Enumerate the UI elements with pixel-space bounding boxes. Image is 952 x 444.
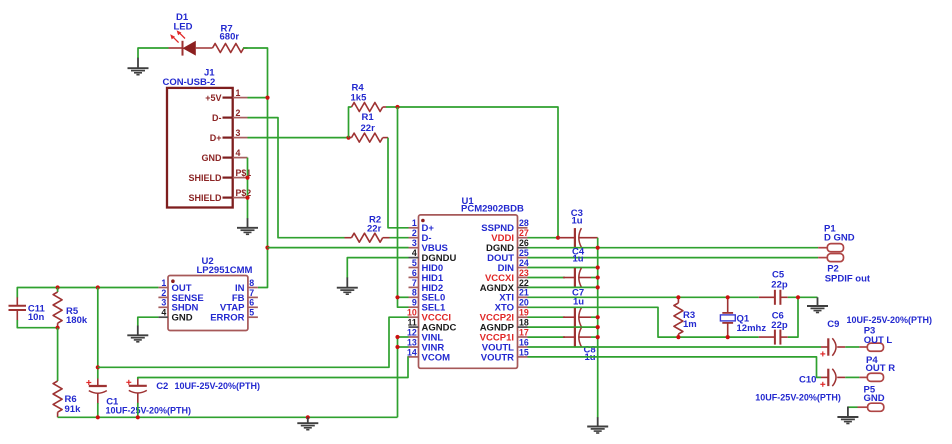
wire R1 right to U1 pin1 D+ <box>388 138 409 228</box>
wire <box>138 48 169 58</box>
resistor R6 91k <box>53 381 62 417</box>
wire bottom rail <box>58 416 398 418</box>
wire +5V net: R7 to J1 pin1 to U2 IN vertical <box>243 48 268 288</box>
svg-text:2: 2 <box>412 228 417 238</box>
resistor R7 <box>213 44 248 53</box>
LED D1 <box>169 30 213 55</box>
wire J1 GND pin4 down to ground <box>247 158 249 219</box>
svg-text:SPDIF out: SPDIF out <box>825 274 871 285</box>
wire SEL0 stub link <box>398 296 409 298</box>
svg-text:22p: 22p <box>771 320 788 331</box>
pad P5 GND <box>858 403 884 411</box>
svg-text:4: 4 <box>236 148 241 158</box>
U1 pin 9 SEL1 <box>409 298 446 314</box>
junction C2 bottom <box>136 415 140 419</box>
U1 pin 20 XTO <box>495 298 529 314</box>
svg-text:C2: C2 <box>156 381 168 392</box>
wire ground bus vertical <box>597 238 599 418</box>
svg-text:1: 1 <box>161 278 166 288</box>
C8 right lead <box>580 336 598 338</box>
ground below P5 <box>837 407 858 424</box>
voltage regulator U2 LP2951CMM <box>168 276 248 331</box>
capacitor C4 1u <box>563 277 575 279</box>
resistor R3 1m <box>674 297 683 337</box>
junction bottom rail ground <box>306 415 310 419</box>
svg-text:OUT L: OUT L <box>864 335 893 346</box>
capacitor C9 10UF <box>820 338 845 356</box>
U1 pin 14 VCOM <box>407 347 450 363</box>
junction AGNDP bus <box>596 325 600 329</box>
U1 pin 16 VOUTL <box>482 337 529 353</box>
J1 pin 4 GND <box>202 148 248 163</box>
crystal Q1 12mhz <box>720 297 735 337</box>
svg-text:21: 21 <box>519 288 529 298</box>
junction +5V / VBUS branch <box>265 246 269 250</box>
svg-text:D-: D- <box>212 113 222 123</box>
svg-text:9: 9 <box>412 298 417 308</box>
pad P1 D GND <box>818 244 843 252</box>
svg-text:23: 23 <box>519 268 529 278</box>
U2 pin 2 SENSE <box>158 288 203 304</box>
wire DGND to P1 pad <box>528 247 819 249</box>
svg-text:7: 7 <box>249 288 254 298</box>
svg-text:OUT R: OUT R <box>866 363 896 374</box>
U1 pin 11 AGNDC <box>407 318 456 334</box>
U1 pin 25 DOUT <box>487 248 529 264</box>
wire VCCP2I to C7 <box>528 316 566 318</box>
svg-text:GND: GND <box>202 153 223 163</box>
U2 pin 8 IN <box>235 278 258 294</box>
svg-text:SHIELD: SHIELD <box>188 193 222 203</box>
svg-text:1k5: 1k5 <box>351 93 368 104</box>
wire U2 OUT rail <box>17 288 158 298</box>
U1 pin 5 HID0 <box>409 258 444 274</box>
svg-text:1m: 1m <box>683 319 697 330</box>
svg-text:17: 17 <box>519 327 529 337</box>
wire VCCP1I to C8 <box>528 336 566 338</box>
svg-text:15: 15 <box>519 347 529 357</box>
wire P5 to ground <box>848 406 858 408</box>
capacitor C2 10UF <box>126 378 147 404</box>
svg-text:R1: R1 <box>362 112 375 123</box>
svg-text:27: 27 <box>519 228 529 238</box>
svg-text:12: 12 <box>407 327 417 337</box>
svg-text:LED: LED <box>174 21 193 32</box>
wire C1 branch vertical <box>97 288 99 379</box>
svg-text:8: 8 <box>412 288 417 298</box>
svg-text:22r: 22r <box>367 224 382 235</box>
ground <box>128 57 149 74</box>
pad P2 SPDIF out <box>818 254 843 262</box>
svg-text:ERROR: ERROR <box>210 313 244 324</box>
wire XTI net <box>528 296 759 298</box>
wire DOUT to P2 pad <box>528 257 819 259</box>
pad P4 OUT R <box>859 373 883 381</box>
U1 pin 18 AGNDP <box>480 318 529 334</box>
capacitor C10 10UF <box>820 369 845 387</box>
C4 right lead <box>580 277 598 279</box>
C3 right lead <box>580 237 598 239</box>
junction VINL <box>395 335 399 339</box>
U1 pin 4 DGNDU <box>409 248 457 264</box>
U1 pin 23 VCCXI <box>485 268 529 284</box>
svg-text:5: 5 <box>412 258 417 268</box>
junction C1 branch top <box>96 285 100 289</box>
capacitor C7 1u <box>563 316 575 318</box>
junction +5V at J1 pin1 <box>265 96 269 100</box>
wire AGNDP to bus <box>528 326 598 328</box>
U2 pin 4 GND <box>158 308 192 324</box>
wire SEL vertical to SEL0/SEL1 <box>398 107 409 307</box>
U1 pin 24 DIN <box>498 258 529 274</box>
junction R3 top <box>676 295 680 299</box>
U1 pin 21 XTI <box>499 288 529 304</box>
svg-text:91k: 91k <box>65 404 82 415</box>
wire VOUTL to C9 <box>528 346 822 348</box>
wire C2 bottom <box>137 403 139 418</box>
wire VCCXI to C4 <box>528 277 566 279</box>
wire DGNDU to ground <box>347 258 408 278</box>
wire VINL/VINR vertical <box>397 337 399 417</box>
svg-text:VOUTR: VOUTR <box>481 352 514 363</box>
svg-text:22: 22 <box>519 278 529 288</box>
U1 pin 28 SSPND <box>481 218 529 234</box>
svg-text:680r: 680r <box>220 31 240 42</box>
wire C10 to P4 <box>845 376 859 378</box>
svg-text:VCOM: VCOM <box>422 352 451 363</box>
svg-text:11: 11 <box>407 318 416 328</box>
svg-text:6: 6 <box>249 298 254 308</box>
wire R2 right to U1 pin2 D- <box>390 237 409 239</box>
wire C9 to P3 <box>845 346 859 348</box>
wire D- from J1 pin2 to R2 <box>248 118 345 238</box>
svg-text:20: 20 <box>519 298 529 308</box>
wire VINL stub link <box>398 336 409 338</box>
J1 pin 3 D+ <box>210 128 248 143</box>
svg-text:18: 18 <box>519 318 529 328</box>
wire C11 bottom to R5 bottom <box>17 320 57 328</box>
svg-text:PCM2902BDB: PCM2902BDB <box>461 203 524 214</box>
capacitor C8 1u <box>563 336 575 338</box>
svg-text:26: 26 <box>519 238 529 248</box>
pad P3 OUT L <box>859 343 883 351</box>
svg-text:13: 13 <box>407 337 417 347</box>
junction VCCCI tap <box>96 365 100 369</box>
junction R3 bottom <box>676 335 680 339</box>
junction DIN bus <box>596 265 600 269</box>
U1 pin 27 VDDI <box>491 228 529 244</box>
ground right of C5 <box>807 297 828 312</box>
U2 pin 3 SHDN <box>158 298 198 314</box>
resistor R1 22r <box>349 133 389 142</box>
junction SHIELD P$2 <box>245 196 249 200</box>
wire R4 right to VDDI <box>386 107 558 238</box>
wire DIN to bus <box>528 267 598 269</box>
svg-text:10n: 10n <box>28 312 45 323</box>
resistor R2 22r <box>345 233 390 242</box>
junction C7 bus <box>596 315 600 319</box>
capacitor C6 22p <box>759 330 788 345</box>
ground below U2 <box>127 326 148 342</box>
junction VDDI <box>556 236 560 240</box>
wire R5 bottom to R6 top <box>57 328 59 381</box>
wire VINR stub link <box>398 346 409 348</box>
svg-text:19: 19 <box>519 308 529 318</box>
capacitor C3 1u <box>558 237 575 239</box>
wire AGNDX to bus <box>528 286 598 288</box>
svg-text:5: 5 <box>249 308 254 318</box>
svg-text:LP2951CMM: LP2951CMM <box>197 265 253 276</box>
svg-text:2: 2 <box>161 288 166 298</box>
wire VCCCI long rail to U1 pin10 <box>98 317 409 367</box>
svg-text:1: 1 <box>236 88 241 98</box>
U2 pin 1 OUT <box>158 278 191 294</box>
svg-text:D GND: D GND <box>824 232 855 243</box>
capacitor C11 10n <box>9 297 27 320</box>
junction C1 bottom <box>96 415 100 419</box>
J1 pin 2 D- <box>212 108 248 123</box>
svg-text:4: 4 <box>161 308 166 318</box>
svg-text:28: 28 <box>519 218 529 228</box>
junction Q1 bottom <box>726 335 730 339</box>
svg-text:7: 7 <box>412 278 417 288</box>
svg-text:GND: GND <box>864 393 885 404</box>
junction Q1 top <box>726 295 730 299</box>
svg-text:2: 2 <box>236 108 241 118</box>
C7 right lead <box>580 316 598 318</box>
svg-text:CON-USB-2: CON-USB-2 <box>163 77 216 88</box>
wire XTO net <box>528 307 759 337</box>
U1 pin 2 D- <box>409 228 432 244</box>
U1 pin 17 VCCP1I <box>480 327 529 343</box>
capacitor C1 10UF <box>86 379 107 405</box>
svg-text:3: 3 <box>236 128 241 138</box>
resistor R4 1k5 <box>349 103 387 138</box>
junction DGND bus <box>596 246 600 250</box>
U2 pin 6 VTAP <box>220 298 258 314</box>
wire VDDI to C3 <box>528 237 561 239</box>
connector J1 CON-USB-2 <box>167 88 233 208</box>
junction AGNDX bus <box>596 285 600 289</box>
wire +5V J1 pin1 stub to vertical <box>248 97 268 99</box>
junction D+ R1/R4 <box>346 136 350 140</box>
wire VOUTR to C10 <box>528 357 822 378</box>
junction R4/SEL pullup <box>395 105 399 109</box>
svg-text:C10: C10 <box>799 374 816 385</box>
U1 pin 7 HID2 <box>409 278 444 294</box>
svg-text:12mhz: 12mhz <box>737 323 767 334</box>
ground bus bottom <box>587 417 608 433</box>
svg-text:3: 3 <box>161 298 166 308</box>
U1 pin 3 VBUS <box>409 238 448 254</box>
wire crystal net to ground <box>798 296 818 298</box>
J1 pin P$2 SHIELD <box>188 188 251 203</box>
svg-text:GND: GND <box>172 313 193 324</box>
svg-text:10UF-25V-20%(PTH): 10UF-25V-20%(PTH) <box>755 393 841 403</box>
wire C1 bottom <box>97 403 99 417</box>
svg-text:+5V: +5V <box>205 93 221 103</box>
wire U2 GND pin4 to ground <box>138 317 159 326</box>
U1 pin 26 DGND <box>486 238 529 254</box>
svg-text:C9: C9 <box>827 319 839 330</box>
resistor R5 180k <box>53 288 62 328</box>
capacitor C5 22p <box>759 290 788 305</box>
ground below U1 pin4 <box>337 277 358 294</box>
svg-text:3: 3 <box>412 238 417 248</box>
U1 pin 15 VOUTR <box>481 347 529 363</box>
svg-text:6: 6 <box>412 268 417 278</box>
wire C5/C6 right join <box>788 297 798 337</box>
junction R5 top <box>56 285 60 289</box>
IC U1 PCM2902BDB <box>419 215 518 368</box>
U2 pin 5 ERROR <box>210 308 258 324</box>
svg-text:4: 4 <box>412 248 417 258</box>
U1 pin 19 VCCP2I <box>480 308 529 324</box>
svg-text:180k: 180k <box>66 315 88 326</box>
J1 pin 1 +5V <box>205 88 247 103</box>
svg-text:25: 25 <box>519 248 529 258</box>
svg-text:1u: 1u <box>573 254 584 265</box>
U1 pin 13 VINR <box>407 337 444 353</box>
svg-text:10UF-25V-20%(PTH): 10UF-25V-20%(PTH) <box>175 381 261 391</box>
svg-text:8: 8 <box>249 278 254 288</box>
J1 pin P$1 SHIELD <box>188 168 251 183</box>
svg-text:1: 1 <box>412 218 417 228</box>
junction VINR <box>395 345 399 349</box>
U1 pin 6 HID1 <box>409 268 444 284</box>
wire C2 top to VCOM rail <box>138 357 410 379</box>
junction crystal/ground <box>796 295 800 299</box>
svg-text:D+: D+ <box>210 133 222 143</box>
junction SEL0 <box>395 295 399 299</box>
svg-text:16: 16 <box>519 337 529 347</box>
junction C8 bus <box>596 335 600 339</box>
svg-text:10UF-25V-20%(PTH): 10UF-25V-20%(PTH) <box>106 405 192 415</box>
svg-text:22r: 22r <box>361 123 376 134</box>
svg-text:22p: 22p <box>771 280 788 291</box>
svg-text:10: 10 <box>407 308 417 318</box>
svg-text:SHIELD: SHIELD <box>188 173 222 183</box>
junction C4 bus <box>596 275 600 279</box>
ground below J1 <box>237 218 258 234</box>
U1 pin 12 VINL <box>407 327 443 343</box>
svg-text:10UF-25V-20%(PTH): 10UF-25V-20%(PTH) <box>847 315 933 325</box>
ground bottom center <box>297 417 318 429</box>
svg-text:14: 14 <box>407 347 417 357</box>
U1 pin 22 AGNDX <box>480 278 529 294</box>
U1 pin 10 VCCCI <box>407 308 451 324</box>
junction SHIELD P$1 <box>245 176 249 180</box>
wire VBUS to U1 pin3 <box>268 247 409 249</box>
U2 pin 7 FB <box>232 288 258 304</box>
svg-text:24: 24 <box>519 258 529 268</box>
U1 pin 8 SEL0 <box>409 288 446 304</box>
wire D+ from J1 pin3 to R1/R4 junction <box>248 137 349 139</box>
junction R5 bottom / C11 <box>56 326 60 330</box>
U1 pin 1 D+ <box>409 218 435 234</box>
svg-text:1u: 1u <box>572 216 583 227</box>
